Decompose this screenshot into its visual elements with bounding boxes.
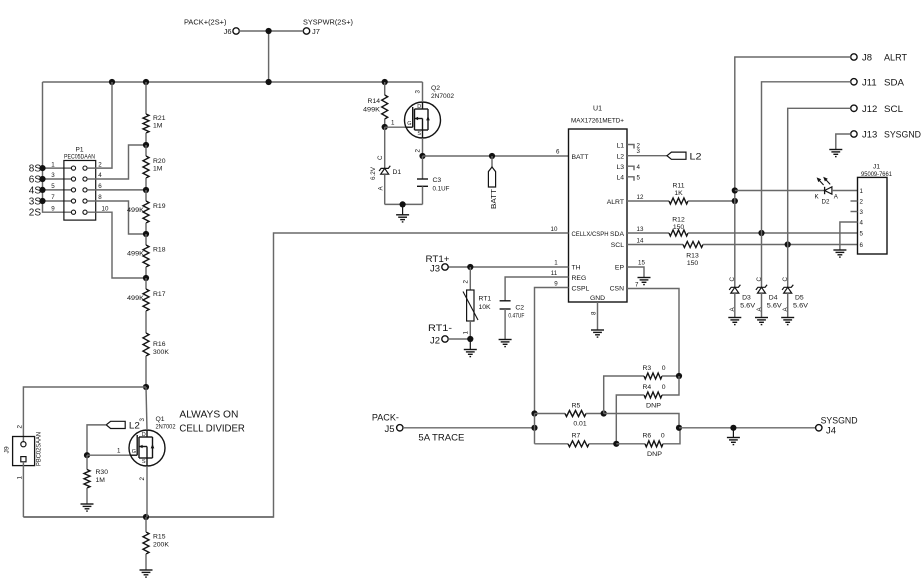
svg-text:ALRT: ALRT	[607, 199, 624, 206]
node R20/R19 junction	[143, 187, 149, 193]
svg-text:PBC02SAAN: PBC02SAAN	[36, 432, 43, 466]
zener D5 5.6V	[782, 277, 808, 318]
svg-text:ALRT: ALRT	[884, 53, 907, 64]
node Q2 gate junction	[382, 120, 395, 131]
node ALRT junction	[732, 198, 738, 204]
capacitor C2 0.47UF	[500, 301, 525, 320]
wire bottom rail	[23, 516, 273, 518]
svg-text:1: 1	[51, 161, 55, 168]
node 6S label	[29, 175, 42, 186]
resistor R13 150	[627, 238, 858, 268]
svg-text:1K: 1K	[674, 190, 683, 197]
resistor R5 0.01	[535, 402, 604, 427]
resistor R3 0	[643, 365, 680, 379]
svg-text:6: 6	[556, 149, 560, 156]
svg-text:BATT: BATT	[572, 154, 589, 161]
svg-text:R3: R3	[643, 365, 652, 372]
svg-text:R17: R17	[153, 291, 166, 298]
node R7/R4 junction	[613, 441, 619, 447]
svg-text:G: G	[132, 449, 136, 455]
resistor R12 150	[627, 216, 858, 236]
svg-text:SYSGND: SYSGND	[884, 130, 921, 141]
node 4S label	[29, 185, 42, 196]
svg-text:3: 3	[637, 148, 641, 155]
resistor R11 1K	[627, 182, 735, 204]
wire R16 tap to J9	[23, 387, 146, 442]
net flag BATT	[488, 156, 497, 209]
terminal J2 RT1-	[428, 323, 452, 347]
ground below D3	[728, 318, 741, 325]
svg-text:C: C	[377, 155, 384, 160]
connector J9 PBC02SAAN	[4, 425, 43, 480]
resistor R17	[127, 278, 166, 333]
svg-text:R5: R5	[572, 402, 581, 409]
svg-text:2: 2	[16, 425, 23, 429]
U1 pin 9 label	[554, 280, 558, 287]
svg-text:C: C	[729, 277, 736, 282]
svg-text:200K: 200K	[153, 542, 169, 549]
svg-text:D: D	[142, 432, 146, 438]
wire P1 pin3 stub	[43, 178, 72, 180]
svg-text:499K: 499K	[127, 207, 144, 214]
svg-text:J13: J13	[862, 130, 877, 141]
svg-text:D1: D1	[393, 169, 402, 176]
svg-text:EP: EP	[615, 265, 625, 272]
svg-text:7: 7	[51, 194, 55, 201]
U1 pin L1 stub	[627, 143, 641, 150]
wire Q2 source down	[422, 138, 424, 156]
svg-text:5: 5	[860, 230, 864, 237]
svg-text:0: 0	[662, 384, 666, 391]
svg-text:14: 14	[637, 238, 644, 245]
J1 pin3 stub	[851, 211, 858, 213]
wire PACK- net	[403, 427, 535, 429]
svg-text:6S: 6S	[29, 175, 42, 186]
svg-text:C: C	[756, 277, 763, 282]
ground at U1 GND	[591, 330, 604, 337]
U1 pin L3 stub	[627, 164, 641, 171]
terminal J6 PACK+	[184, 18, 239, 37]
svg-text:5: 5	[51, 183, 55, 190]
svg-text:SDA: SDA	[884, 77, 905, 88]
wire L2 to Q1 gate	[87, 425, 106, 455]
svg-text:10: 10	[551, 226, 558, 233]
U1 pin 1 label	[554, 259, 558, 266]
svg-text:4: 4	[860, 219, 864, 226]
net flag L2 at U1	[667, 152, 702, 163]
svg-text:R11: R11	[673, 182, 685, 189]
svg-text:R19: R19	[153, 203, 166, 210]
node bus-R21 junction	[143, 79, 149, 85]
wire J11 net	[762, 82, 851, 284]
svg-text:R12: R12	[672, 216, 685, 223]
svg-text:U1: U1	[593, 106, 602, 113]
resistor R30 1M	[84, 455, 108, 504]
resistor R20	[143, 145, 166, 190]
node Q1 gate junction	[84, 452, 90, 458]
svg-text:13: 13	[637, 226, 644, 233]
svg-text:5.6V: 5.6V	[740, 302, 755, 309]
ground below D5	[781, 318, 794, 325]
wire SYSGND net	[679, 427, 816, 429]
svg-text:150: 150	[673, 224, 685, 231]
svg-text:12: 12	[637, 194, 644, 201]
wire P1 pin7 stub	[43, 200, 72, 202]
svg-text:0.47UF: 0.47UF	[508, 313, 524, 320]
ground at J1 pin4	[833, 250, 846, 257]
transistor Q1 2N7002	[129, 416, 176, 481]
node 4S junction	[39, 187, 45, 193]
svg-text:CELLX/CSPH: CELLX/CSPH	[572, 231, 609, 238]
svg-text:499K: 499K	[363, 106, 380, 113]
wire CELLX/CSPH net	[23, 233, 568, 517]
svg-text:499K: 499K	[127, 251, 144, 258]
svg-text:C: C	[782, 277, 789, 282]
wire P1 pin2 riser	[87, 82, 112, 168]
svg-text:95009-7661: 95009-7661	[861, 171, 893, 178]
node bus-R14 junction	[382, 79, 388, 85]
svg-text:3: 3	[51, 172, 55, 179]
ground at J13	[829, 150, 842, 157]
svg-text:5A TRACE: 5A TRACE	[418, 433, 464, 444]
node R19/R18 junction	[143, 231, 149, 237]
wire J6/J7 riser	[268, 31, 270, 82]
node TH junction	[467, 264, 473, 270]
resistor R16	[143, 333, 169, 387]
node 3S label	[29, 197, 42, 208]
U1 pin L2 wire	[627, 148, 667, 156]
wire D2 to J1 pin1	[832, 190, 858, 192]
svg-text:0: 0	[661, 433, 665, 440]
node 8S label	[29, 164, 42, 175]
terminal J7 SYSPWR	[303, 18, 353, 37]
wire D2 row	[735, 190, 825, 192]
thermistor RT1 10K	[462, 267, 491, 339]
wire BATT net	[423, 155, 569, 157]
wire Q1 gate	[87, 447, 130, 455]
resistor R14	[363, 82, 388, 127]
node Q2 source junction	[419, 153, 425, 159]
J1 pin4 wire	[840, 222, 858, 250]
svg-text:PACK+(2S+): PACK+(2S+)	[184, 18, 227, 27]
terminal J8 ALRT	[851, 53, 907, 64]
svg-text:9: 9	[51, 205, 55, 212]
ground below R30	[81, 504, 94, 511]
svg-text:SCL: SCL	[611, 242, 624, 249]
svg-text:3S: 3S	[29, 197, 42, 208]
svg-text:2: 2	[98, 161, 102, 168]
connector J1 95009-7661	[858, 164, 893, 255]
terminal J4 SYSGND	[816, 415, 858, 436]
svg-text:1: 1	[16, 476, 23, 480]
wire R3 riser	[604, 376, 644, 414]
terminal J5 PACK-	[372, 413, 465, 444]
node BATT flag junction	[489, 153, 495, 159]
ground below C2	[499, 309, 512, 347]
U1 pin 10 label	[551, 226, 558, 233]
svg-text:300K: 300K	[153, 349, 169, 356]
wire REG net	[505, 277, 568, 301]
svg-text:D2: D2	[822, 199, 830, 206]
wire P1 pin8 to R19 bottom	[87, 201, 146, 234]
svg-text:0.1UF: 0.1UF	[433, 185, 450, 192]
svg-text:DNP: DNP	[646, 403, 661, 410]
node RT1 bottom junction	[467, 336, 473, 342]
svg-text:R7: R7	[572, 433, 581, 440]
svg-text:CELL DIVIDER: CELL DIVIDER	[179, 422, 245, 434]
svg-text:1M: 1M	[153, 166, 163, 173]
svg-text:P1: P1	[76, 147, 84, 154]
svg-text:0.01: 0.01	[573, 421, 586, 428]
terminal J11 SDA	[851, 77, 905, 88]
J1 pin2 stub	[851, 200, 858, 202]
svg-text:SCL: SCL	[884, 104, 903, 115]
node junction J6/J7	[266, 28, 272, 34]
svg-text:R16: R16	[153, 341, 166, 348]
svg-text:J5: J5	[384, 424, 394, 435]
svg-text:D: D	[417, 104, 421, 110]
wire J9 pin1 down to rail	[22, 462, 24, 517]
svg-text:8: 8	[98, 194, 102, 201]
wire Q1 source	[146, 466, 148, 517]
svg-text:J6: J6	[224, 27, 232, 36]
svg-text:C3: C3	[433, 177, 442, 184]
svg-text:Q2: Q2	[431, 85, 440, 92]
svg-text:L2: L2	[690, 152, 702, 163]
svg-text:2: 2	[860, 198, 864, 205]
node PACK-/R5 junction	[531, 425, 537, 431]
U1 pin L4 stub	[627, 175, 641, 182]
svg-text:7: 7	[635, 282, 639, 289]
ground at SYSGND rail	[727, 428, 740, 445]
zener D4 5.6V	[756, 277, 782, 318]
connector P1 PEC05DAAN	[51, 147, 109, 221]
node 8S junction	[39, 165, 45, 171]
svg-text:Q1: Q1	[156, 416, 165, 423]
wire J13 to ground	[836, 134, 851, 150]
svg-text:C2: C2	[515, 305, 524, 312]
svg-text:4: 4	[98, 172, 102, 179]
svg-text:J2: J2	[430, 336, 440, 347]
wire R5/R7 vertical	[534, 414, 536, 444]
svg-text:2: 2	[139, 477, 146, 481]
svg-text:1: 1	[462, 331, 469, 335]
svg-text:SDA: SDA	[610, 231, 624, 238]
svg-text:150: 150	[687, 260, 699, 267]
svg-text:2S: 2S	[29, 208, 42, 219]
wire P1 pin6 to R20 bottom	[87, 189, 146, 191]
svg-text:6: 6	[860, 242, 864, 249]
svg-text:10: 10	[102, 205, 109, 212]
terminal J3 RT1+	[426, 254, 450, 275]
node SYSGND-R6 junction	[676, 425, 682, 431]
svg-text:L1: L1	[616, 143, 624, 150]
svg-text:2: 2	[462, 280, 469, 284]
node 6S junction	[39, 176, 45, 182]
wire Q2 drain to bus	[422, 82, 424, 102]
resistor R21	[143, 82, 166, 145]
svg-text:3: 3	[139, 418, 146, 422]
wire P1 pin10 to R18 bottom	[87, 212, 146, 278]
svg-text:J7: J7	[312, 27, 320, 36]
resistor R19	[127, 190, 166, 234]
svg-text:RT1-: RT1-	[428, 323, 452, 334]
svg-text:CSN: CSN	[610, 285, 624, 292]
svg-text:6: 6	[98, 183, 102, 190]
node SCL junction	[785, 241, 791, 247]
svg-text:1M: 1M	[96, 477, 106, 484]
svg-text:D3: D3	[742, 294, 751, 301]
svg-text:1M: 1M	[153, 123, 163, 130]
svg-text:4S: 4S	[29, 185, 42, 196]
node R3/CSN junction	[676, 373, 682, 379]
ground below D4	[755, 318, 768, 325]
net flag L2 at Q1	[106, 421, 140, 432]
resistor R15 200K	[143, 517, 169, 570]
svg-text:15: 15	[638, 260, 645, 267]
node D2 row junction	[732, 187, 738, 193]
svg-text:RT1: RT1	[479, 296, 492, 303]
svg-text:11: 11	[551, 270, 558, 277]
wire left bus vertical	[43, 82, 72, 212]
node bottom-rail ground junction	[400, 201, 406, 207]
wire J12 net	[788, 108, 851, 283]
U1 pin 11 label	[551, 270, 558, 277]
svg-text:R18: R18	[153, 247, 166, 254]
svg-text:1: 1	[554, 259, 558, 266]
svg-text:9: 9	[554, 280, 558, 287]
svg-text:TH: TH	[572, 265, 581, 272]
svg-text:1: 1	[860, 188, 864, 195]
svg-text:R15: R15	[153, 534, 166, 541]
resistor R6 0 DNP	[616, 428, 680, 458]
wire P1 pin1 stub	[43, 167, 72, 169]
svg-text:J8: J8	[862, 53, 872, 64]
node R16/Q1 junction	[143, 384, 149, 390]
zener D1 6.2V	[370, 127, 402, 204]
svg-text:R30: R30	[96, 469, 109, 476]
svg-text:4: 4	[637, 164, 641, 171]
node Q1 source rail junction	[143, 514, 149, 520]
svg-text:2N7002: 2N7002	[431, 93, 454, 100]
zener D3 5.6V	[729, 277, 755, 318]
wire P1 pin5 stub	[43, 189, 72, 191]
wire top PACK+ bus	[43, 81, 423, 83]
svg-text:6.2V: 6.2V	[370, 166, 377, 180]
node R18/R17 junction	[143, 275, 149, 281]
svg-text:3: 3	[415, 90, 422, 94]
svg-text:5: 5	[637, 175, 641, 182]
svg-text:2: 2	[415, 149, 422, 153]
svg-text:499K: 499K	[127, 295, 144, 302]
svg-text:2N7002: 2N7002	[156, 423, 176, 430]
svg-text:SYSPWR(2S+): SYSPWR(2S+)	[303, 18, 353, 27]
resistor R4 0 DNP	[616, 376, 679, 444]
svg-text:0: 0	[662, 365, 666, 372]
wire Q2 gate	[385, 126, 406, 128]
svg-text:DNP: DNP	[647, 451, 662, 458]
svg-text:D5: D5	[795, 294, 804, 301]
note ALWAYS ON CELL DIVIDER	[179, 408, 245, 434]
svg-text:J3: J3	[430, 264, 440, 275]
svg-text:R6: R6	[643, 433, 652, 440]
svg-text:5.6V: 5.6V	[767, 302, 782, 309]
resistor R7	[535, 433, 617, 447]
svg-text:GND: GND	[590, 295, 605, 302]
node 3S junction	[39, 198, 45, 204]
svg-text:5.6V: 5.6V	[793, 302, 808, 309]
svg-text:1: 1	[117, 447, 121, 454]
svg-text:L4: L4	[616, 175, 624, 182]
svg-text:MAX17261METD+: MAX17261METD+	[571, 118, 624, 125]
svg-text:R20: R20	[153, 158, 166, 165]
svg-text:1: 1	[391, 120, 395, 127]
svg-text:REG: REG	[572, 275, 587, 282]
wire J6-J7 link	[239, 30, 303, 32]
node bus-riser junction	[266, 79, 272, 85]
svg-text:8S: 8S	[29, 164, 42, 175]
svg-text:L3: L3	[616, 164, 624, 171]
wire R5 to SYSGND corner	[604, 414, 679, 428]
svg-text:8: 8	[591, 311, 598, 315]
U1 pin EP stub	[627, 260, 645, 278]
pin 6 label	[556, 149, 560, 156]
resistor R18	[127, 234, 166, 278]
svg-text:D4: D4	[769, 294, 778, 301]
wire D1/C3 bottom rail	[385, 203, 423, 205]
node CSPL junction	[531, 410, 537, 416]
svg-text:L2: L2	[616, 154, 624, 161]
svg-text:S: S	[417, 131, 421, 137]
svg-text:J12: J12	[862, 104, 877, 115]
U1 pin GND stub	[591, 302, 598, 330]
terminal J13 SYSGND	[851, 130, 921, 141]
node R21/R20 junction	[143, 142, 149, 148]
svg-text:R21: R21	[153, 115, 166, 122]
node 2S label	[29, 208, 42, 219]
svg-text:J9: J9	[4, 446, 11, 453]
wire J8 net	[735, 57, 851, 284]
svg-text:J4: J4	[826, 426, 836, 437]
node R5/R3 junction	[601, 410, 607, 416]
svg-text:J11: J11	[862, 77, 877, 88]
op-amp U1 MAX17261METD+ body	[569, 106, 628, 303]
svg-text:10K: 10K	[479, 304, 492, 311]
node bus-pin2 junction	[109, 79, 115, 85]
ground below RT1	[464, 339, 477, 357]
wire CSPL net	[535, 288, 569, 414]
svg-text:CSPL: CSPL	[572, 285, 590, 292]
node SYSGND ground junction	[730, 425, 736, 431]
wire P1 pin4 to R20 top	[87, 145, 146, 179]
wire Q1 drain	[146, 387, 147, 430]
ground below R15	[140, 570, 153, 577]
svg-text:G: G	[407, 121, 411, 127]
svg-text:ALWAYS ON: ALWAYS ON	[179, 408, 238, 420]
wire J2 to RT1	[448, 338, 470, 340]
diode D2 LED	[815, 177, 839, 206]
svg-text:R13: R13	[686, 253, 699, 260]
svg-text:PEC05DAAN: PEC05DAAN	[64, 154, 95, 161]
svg-text:R14: R14	[368, 98, 381, 105]
capacitor C3 0.1UF	[417, 156, 450, 204]
svg-text:S: S	[142, 459, 146, 465]
terminal J12 SCL	[851, 104, 903, 115]
svg-text:3: 3	[860, 209, 864, 216]
transistor Q2 2N7002	[405, 85, 455, 153]
svg-text:PACK-: PACK-	[372, 413, 399, 424]
U1 pin CSN wire	[627, 282, 679, 377]
